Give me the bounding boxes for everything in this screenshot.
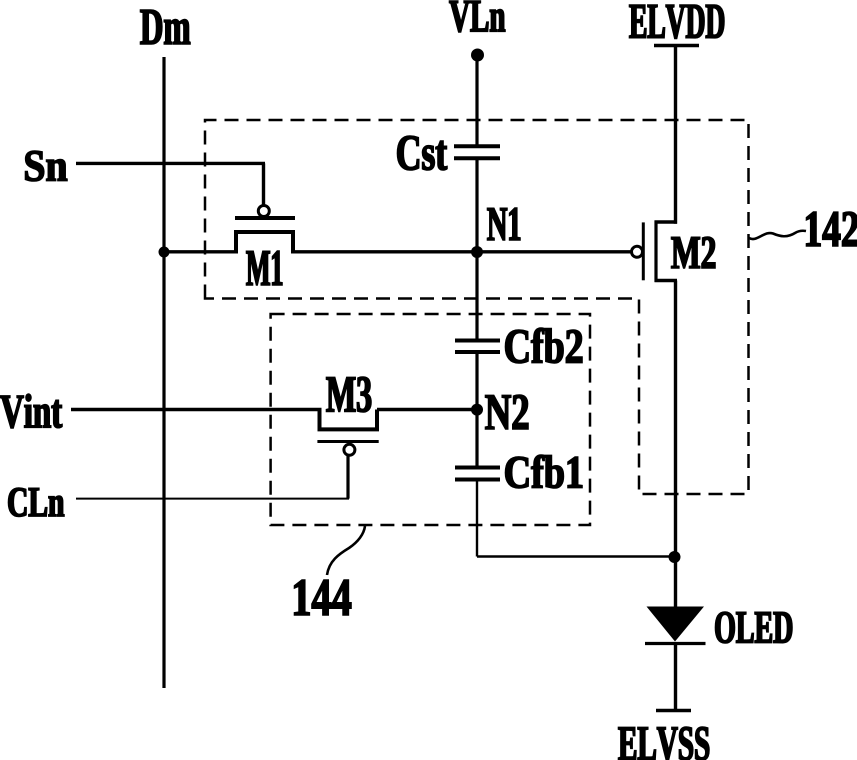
transistor M1 gate bubble [258,206,269,217]
leader squiggle to 142 [749,231,806,239]
junction dot on Dm at row wire [159,247,170,258]
node N1 dot [471,246,483,258]
transistor M2 drain step [655,279,678,282]
wire: CLn line to M3 gate [76,498,349,500]
transistor M1 gate bar [235,216,295,220]
transistor M3 gate bar [317,440,378,443]
label Dm (data line m) [141,10,191,44]
wire: junction down to OLED anode [674,557,677,607]
transistor M2 gate bar [642,222,645,280]
leader squiggle to 144 [327,526,365,575]
label CLn [9,488,64,516]
ELVDD terminal bar [654,44,699,48]
label M1 [247,251,283,285]
ELVSS terminal bar [656,709,691,713]
label 144 [294,580,351,615]
label Cst [397,136,446,170]
label OLED [715,612,791,643]
label Vint [0,394,62,428]
transistor M2 channel bar [654,221,657,283]
wire: bottom feedback run to OLED junction [477,555,675,557]
wire: Cfb1 bottom plate down [476,480,478,557]
wire: row from M1 drain to M2 gate bubble [291,250,632,253]
OLED diode triangle (anode) [647,607,705,642]
transistor M3 gate bubble [344,444,355,455]
label VLn [450,1,505,32]
label M2 [671,237,715,268]
label N2 [485,395,528,429]
wire: Cfb2 bottom plate through N2 to Cfb1 [475,352,478,468]
label 142 [806,212,857,246]
label Sn [25,151,66,181]
node dot at VLn terminal [471,49,484,62]
capacitor Cfb2 top plate [455,339,500,343]
capacitor Cst bottom plate [454,156,500,160]
wire: VLn down to Cst top plate [475,55,478,148]
dashed box 144 [271,314,590,525]
label N1 [487,208,519,240]
label M3 [326,377,370,412]
transistor M1 channel (hat) [236,232,293,254]
label ELVDD [630,5,724,39]
dashed box 142 [205,120,749,494]
transistor M2 gate bubble [632,246,643,257]
label Cfb2 [506,328,583,363]
capacitor Cfb2 bottom plate [455,350,500,354]
wire: Sn scan line horizontal [76,162,265,165]
capacitor Cfb1 top plate [455,466,500,470]
wire: row from Dm junction to M1 source [164,250,238,253]
wire: M3 gate down to CLn [346,456,349,499]
transistor M2 source step [655,220,678,223]
wire: M2 drain down to OLED junction [674,281,677,558]
wire: Vint line to M3 source [71,408,322,411]
capacitor Cst top plate [454,144,500,148]
capacitor Cfb1 bottom plate [455,478,500,482]
junction dot at OLED anode node [669,551,681,563]
wire: Sn drop to M1 gate [262,163,265,205]
transistor M3 channel (downward hat) [318,410,380,430]
label ELVSS [618,727,708,760]
label Cfb1 [505,455,582,488]
wire: Dm data line vertical [162,57,165,688]
OLED cathode bar [645,642,706,645]
node N2 dot [471,404,483,416]
wire: ELVDD down to M2 source step [674,46,677,224]
wire: M3 drain to N2 [377,408,477,411]
wire: Cst bottom plate to N1 and on to Cfb2 [475,158,478,342]
wire: OLED cathode down to ELVSS [674,644,677,711]
